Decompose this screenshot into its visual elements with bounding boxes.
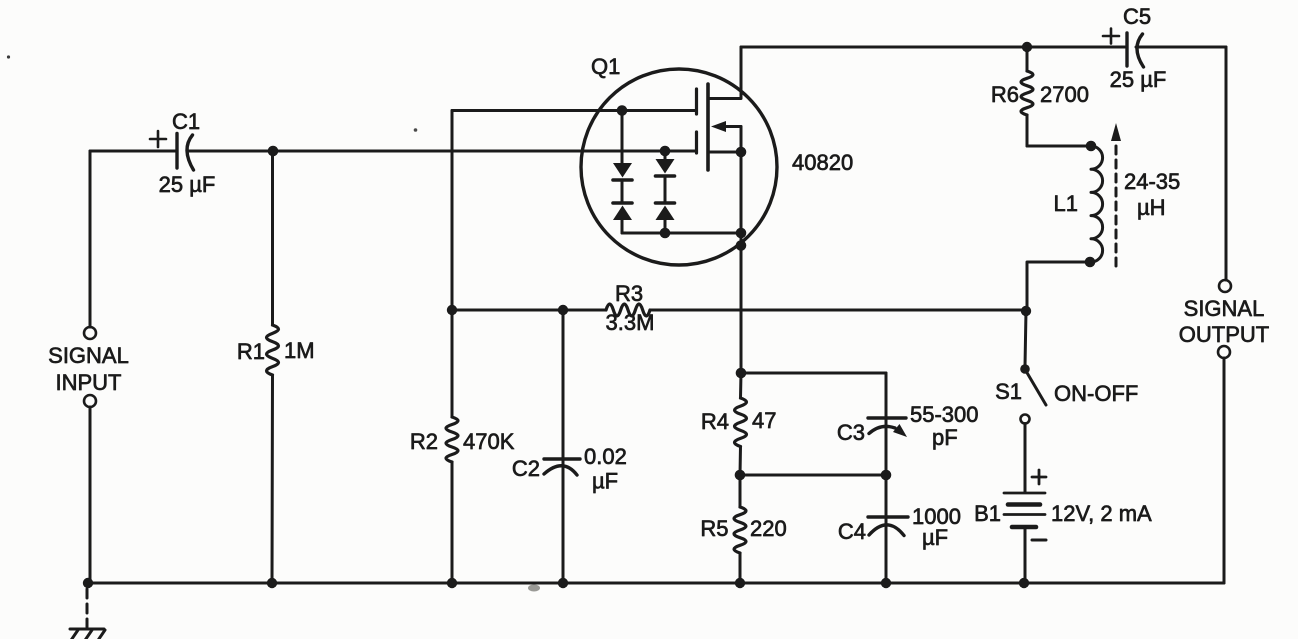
resistor R5 bbox=[700, 475, 786, 583]
svg-text:µF: µF bbox=[592, 469, 618, 494]
svg-text:C3: C3 bbox=[837, 420, 865, 445]
ground: chassis symbol bbox=[63, 629, 105, 639]
node: gate2/diode junction bbox=[660, 146, 671, 157]
node: gate1/diode junction bbox=[617, 105, 628, 116]
node: C1/R1 junction bbox=[268, 146, 279, 157]
wire: diode return bus bbox=[622, 232, 741, 235]
node: R3 / L1 / S1 junction bbox=[1021, 306, 1031, 316]
wire: left vertical to signal input top terminal bbox=[89, 151, 92, 327]
svg-text:µH: µH bbox=[1137, 195, 1166, 220]
wire: output right vertical bbox=[1225, 47, 1228, 280]
inductor L1 bbox=[1091, 146, 1103, 262]
node: L1 bottom bbox=[1085, 257, 1096, 268]
Q1 substrate arrow bbox=[711, 121, 741, 152]
wire: L1 bottom jog to S1 column bbox=[1027, 262, 1090, 311]
svg-text:12V, 2 mA: 12V, 2 mA bbox=[1051, 501, 1152, 526]
svg-text:25 µF: 25 µF bbox=[1110, 67, 1167, 92]
Q1 gate 2 electrode bbox=[695, 132, 698, 153]
svg-text:S1: S1 bbox=[995, 379, 1022, 404]
node: L1 top bbox=[1086, 141, 1097, 152]
svg-text:47: 47 bbox=[752, 408, 776, 433]
node: C2 top junction bbox=[558, 305, 568, 315]
resistor R3 bbox=[606, 304, 650, 316]
node: diode return junction bbox=[736, 228, 747, 239]
Q1 gate 1 electrode bbox=[695, 89, 698, 114]
speck bbox=[414, 128, 418, 132]
wire: branch to C3 bbox=[741, 372, 886, 375]
node: R4/R5 junction bbox=[735, 470, 746, 481]
wire: gate-1 vertical (x=452) top corner to R3 and down through R2 bbox=[451, 111, 454, 418]
resistor R2 bbox=[410, 417, 515, 462]
node: C3/C4 junction bbox=[881, 470, 892, 481]
battery B1 bbox=[974, 424, 1152, 584]
svg-text:25 µF: 25 µF bbox=[159, 172, 216, 197]
wire: R3 bias line bbox=[452, 309, 606, 312]
node: diode bus junction bbox=[660, 228, 671, 239]
svg-text:Q1: Q1 bbox=[591, 54, 620, 79]
svg-text:SIGNAL: SIGNAL bbox=[48, 343, 129, 368]
node: envelope crossing bbox=[736, 240, 747, 251]
diode D4 (gate2 protection, lower) bbox=[656, 176, 675, 233]
node: R5 bottom bbox=[735, 578, 745, 588]
wire: top drain rail bbox=[741, 46, 1125, 49]
svg-text:R2: R2 bbox=[410, 429, 438, 454]
wire: R3 line to S1 node bbox=[650, 309, 1026, 312]
node: B1 bottom bbox=[1019, 578, 1029, 588]
node: C4 bottom bbox=[881, 578, 891, 588]
svg-text:pF: pF bbox=[932, 425, 958, 450]
speck bbox=[528, 585, 540, 592]
svg-text:SIGNAL: SIGNAL bbox=[1184, 296, 1265, 321]
diode D3 (gate2 protection, upper) bbox=[656, 151, 675, 176]
node: source/substrate junction bbox=[736, 147, 747, 158]
diode D2 (gate1 protection, lower) bbox=[613, 180, 632, 233]
resistor R4 bbox=[701, 373, 777, 475]
node: ground junction bbox=[83, 578, 93, 588]
svg-text:3.3M: 3.3M bbox=[606, 310, 655, 335]
capacitor C2 bbox=[512, 310, 627, 583]
svg-text:220: 220 bbox=[750, 516, 787, 541]
wire: gate-2 lead from C1 to Q1 gate 2 bbox=[187, 150, 695, 153]
capacitor C5 bbox=[1103, 4, 1166, 92]
ground: dashed lead bbox=[86, 589, 89, 627]
node: C2 bottom bbox=[558, 578, 568, 588]
svg-text:B1: B1 bbox=[974, 501, 1001, 526]
terminal: signal output top bbox=[1219, 280, 1231, 292]
node: R3 left junction bbox=[447, 305, 457, 315]
capacitor C3 (variable) bbox=[837, 373, 979, 475]
terminal: signal output bottom bbox=[1218, 346, 1230, 358]
svg-text:C5: C5 bbox=[1123, 4, 1151, 29]
node: R4 top branch junction bbox=[736, 368, 747, 379]
wire: R6 to L1 jog bbox=[1027, 145, 1091, 148]
svg-text:2700: 2700 bbox=[1040, 82, 1089, 107]
node: R1 bottom bbox=[267, 578, 277, 588]
svg-text:40820: 40820 bbox=[792, 150, 853, 175]
L1 tuning dashed arrow bbox=[1111, 123, 1121, 266]
node: R2 bottom bbox=[447, 578, 457, 588]
svg-text:ON-OFF: ON-OFF bbox=[1054, 381, 1138, 406]
wire: bottom ground bus bbox=[88, 582, 1224, 585]
svg-text:C4: C4 bbox=[838, 519, 866, 544]
terminal: signal input bottom bbox=[84, 395, 96, 407]
svg-text:55-300: 55-300 bbox=[910, 402, 979, 427]
svg-text:R5: R5 bbox=[700, 516, 728, 541]
svg-text:C2: C2 bbox=[512, 456, 540, 481]
svg-text:470K: 470K bbox=[463, 429, 515, 454]
svg-text:R3: R3 bbox=[615, 281, 643, 306]
node: R6 top bbox=[1022, 42, 1032, 52]
wire: gate-1 lead to Q1 gate 1 bbox=[452, 109, 695, 112]
switch S1 bbox=[995, 311, 1138, 424]
wire: mid link R4/R5 to C3/C4 bbox=[740, 474, 886, 477]
svg-text:C1: C1 bbox=[172, 109, 200, 134]
transistor Q1 envelope bbox=[581, 69, 777, 265]
svg-text:24-35: 24-35 bbox=[1124, 169, 1180, 194]
wire: from input bottom terminal to ground bus bbox=[89, 407, 92, 583]
speck bbox=[7, 55, 10, 58]
svg-text:R4: R4 bbox=[701, 409, 729, 434]
capacitor C1 bbox=[150, 109, 215, 197]
svg-text:1M: 1M bbox=[284, 338, 315, 363]
Q1 channel bar bbox=[706, 84, 710, 170]
Q1 drain lead bbox=[709, 47, 741, 99]
Q1 source lead bbox=[709, 151, 741, 154]
svg-text:0.02: 0.02 bbox=[584, 444, 627, 469]
svg-text:R6: R6 bbox=[991, 82, 1019, 107]
wire: output bottom vertical bbox=[1223, 358, 1226, 583]
resistor R6 bbox=[991, 47, 1089, 146]
svg-text:OUTPUT: OUTPUT bbox=[1179, 322, 1269, 347]
svg-text:L1: L1 bbox=[1054, 191, 1078, 216]
terminal: signal input top bbox=[84, 327, 96, 339]
wire: input top horizontal (gate-2 net) from left corner to C1 bbox=[90, 150, 177, 153]
wire: source vertical down through circle bbox=[740, 152, 743, 373]
capacitor C4 bbox=[838, 475, 961, 583]
diode D1 (gate1 protection, upper) bbox=[613, 111, 632, 181]
svg-text:R1: R1 bbox=[237, 339, 265, 364]
svg-text:INPUT: INPUT bbox=[56, 370, 122, 395]
resistor R1 bbox=[237, 151, 315, 583]
svg-text:µF: µF bbox=[922, 525, 948, 550]
